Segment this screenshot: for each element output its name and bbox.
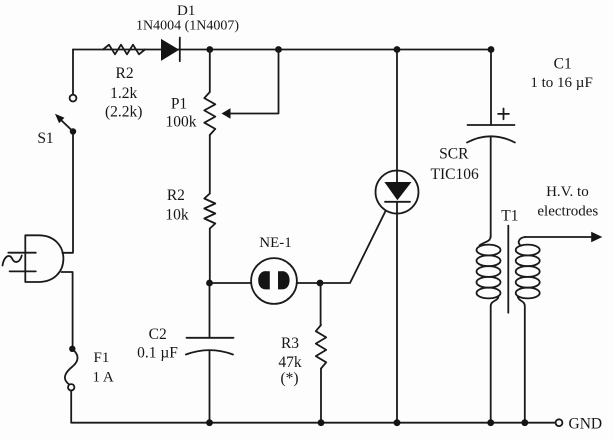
svg-text:1 to 16 µF: 1 to 16 µF: [530, 75, 592, 91]
wire node C to NE-1: [210, 282, 252, 284]
junction node B: [275, 46, 282, 53]
capacitor C1: [468, 124, 515, 126]
wire NE-1 to node D: [297, 282, 320, 284]
AC plug body: [25, 235, 63, 282]
junction node C: [206, 280, 213, 287]
junction dot SCR/bus: [394, 419, 401, 426]
svg-text:GND: GND: [569, 416, 603, 433]
transformer T1 secondary coil: [516, 245, 540, 256]
wire HV output: [525, 236, 591, 238]
svg-text:P1: P1: [171, 96, 187, 113]
potentiometer P1: [204, 92, 215, 135]
fuse F1: [69, 346, 75, 352]
resistor R2 10k: [204, 194, 215, 229]
svg-text:H.V. to: H.V. to: [546, 184, 589, 200]
capacitor C1 plus sign: [498, 109, 509, 120]
svg-text:S1: S1: [37, 130, 53, 147]
svg-text:SCR: SCR: [439, 146, 469, 163]
wire top bus: [73, 49, 491, 51]
wire node E to SCR: [396, 50, 398, 171]
switch S1: [70, 95, 77, 102]
wire SCR gate: [320, 206, 388, 283]
capacitor C2: [209, 283, 211, 338]
svg-text:electrodes: electrodes: [537, 204, 598, 220]
transformer T1 primary lead-out: [491, 297, 499, 423]
junction dot T1 primary/bus: [487, 419, 494, 426]
wire fuse to bottom corner: [71, 391, 555, 423]
svg-text:(*): (*): [280, 370, 298, 387]
svg-text:TIC106: TIC106: [430, 166, 478, 183]
wire node F to C1: [490, 50, 492, 126]
P1 wiper wire: [230, 50, 279, 114]
AC tilde symbol: [3, 256, 22, 266]
wire node A to P1: [209, 50, 211, 93]
svg-text:C2: C2: [149, 326, 167, 343]
junction dot R3/bus: [318, 419, 325, 426]
transformer T1 core: [507, 226, 509, 313]
wire node D to R3: [320, 283, 322, 325]
junction node E (SCR anode): [394, 46, 401, 53]
wire plug lower stub to rail: [62, 272, 73, 346]
wire R2 to node C: [209, 229, 211, 284]
neon lamp NE-1: [251, 258, 297, 304]
wire SCR cathode to bus: [396, 202, 398, 423]
junction node A: [206, 46, 213, 53]
junction node D: [317, 280, 324, 287]
wire R3 to bus: [320, 369, 322, 423]
svg-text:47k: 47k: [278, 354, 302, 371]
svg-text:R2: R2: [167, 187, 185, 204]
transformer T1 primary coil: [477, 245, 501, 256]
svg-text:D1: D1: [177, 3, 195, 19]
junction dot T1 secondary/bus: [521, 419, 528, 426]
svg-text:T1: T1: [501, 207, 518, 224]
svg-text:R3: R3: [281, 335, 299, 352]
junction node F (C1 top): [488, 46, 495, 53]
svg-text:1.2k: 1.2k: [110, 85, 137, 102]
svg-text:1 A: 1 A: [93, 370, 114, 386]
diode D1: [161, 39, 179, 61]
svg-text:100k: 100k: [166, 114, 197, 131]
resistor R2 1.2k: [103, 45, 145, 55]
plug prong upper: [8, 252, 36, 254]
wire P1 to R2 10k: [209, 135, 211, 194]
transformer T1 secondary lead-out: [518, 297, 525, 423]
plug prong lower: [10, 270, 36, 272]
wire left rail upper: [72, 50, 74, 95]
wire from S1 to plug: [62, 135, 73, 253]
svg-text:1N4004 (1N4007): 1N4004 (1N4007): [136, 18, 239, 33]
svg-text:C1: C1: [554, 55, 572, 72]
SCR TIC106: [376, 171, 419, 214]
transformer T1 primary lead-in: [480, 236, 491, 246]
junction dot C2/bus: [206, 419, 213, 426]
svg-text:F1: F1: [94, 350, 110, 366]
svg-text:10k: 10k: [165, 206, 189, 223]
svg-text:NE-1: NE-1: [259, 235, 292, 251]
ground terminal circle: [556, 419, 563, 426]
resistor R3: [316, 325, 326, 369]
svg-text:(2.2k): (2.2k): [105, 104, 142, 121]
svg-text:R2: R2: [116, 65, 134, 82]
svg-text:0.1 µF: 0.1 µF: [137, 345, 178, 362]
transformer T1 secondary lead-in: [519, 237, 526, 246]
